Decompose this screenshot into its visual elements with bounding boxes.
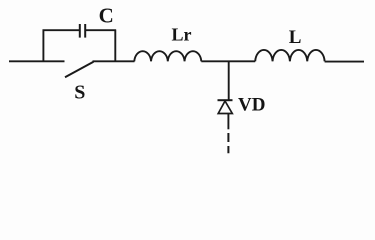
svg-text:L: L [289, 27, 302, 48]
svg-text:S: S [74, 82, 85, 104]
wire segment Lr to L (through node) [201, 60, 255, 62]
capacitor loop top-left wire [43, 29, 80, 31]
wire right segment [325, 61, 364, 63]
diode anode vertical wire [227, 114, 229, 130]
wire mid segment (switch to Lr) [93, 60, 135, 62]
wire left segment [9, 60, 65, 62]
svg-text:VD: VD [238, 94, 265, 115]
capacitor C plates [80, 24, 85, 38]
switch S blade [65, 62, 94, 77]
capacitor loop right vertical wire [114, 30, 116, 62]
diode VD cathode bar [218, 99, 233, 101]
capacitor loop left vertical wire [42, 30, 44, 62]
capacitor loop top-right wire [86, 29, 116, 31]
dashed continuation wire [227, 133, 229, 153]
diode VD triangle [218, 101, 232, 114]
inductor L winding [255, 50, 324, 61]
inductor Lr winding [134, 51, 201, 61]
svg-text:C: C [99, 4, 114, 28]
diode branch vertical wire [228, 61, 230, 100]
svg-text:Lr: Lr [172, 24, 192, 44]
